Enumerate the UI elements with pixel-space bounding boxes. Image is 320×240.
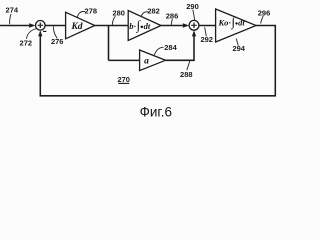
leader line label 288 [187, 61, 190, 70]
svg-text:274: 274 [6, 6, 19, 15]
svg-text:Фиг.6: Фиг.6 [140, 104, 172, 119]
svg-text:288: 288 [180, 70, 193, 79]
wire from Kd to integrator 282 with branch node 280 [95, 25, 128, 27]
arrowhead up into summing junction 290 bottom [192, 30, 196, 36]
svg-text:282: 282 [147, 7, 160, 16]
leader line label 276 [53, 27, 57, 39]
wire input line to summing junction 272 [0, 25, 29, 27]
arrowhead up into summing junction 272 bottom [38, 30, 42, 36]
svg-text:a: a [144, 56, 149, 66]
leader line label 286 [171, 19, 172, 25]
minus sign of feedback input at 272 [43, 30, 46, 32]
wire inner feedback horizontal into amplifier a [109, 59, 140, 61]
svg-text:294: 294 [232, 44, 245, 53]
op-amp Kd triangle 278 [66, 12, 95, 39]
svg-text:270: 270 [117, 75, 130, 84]
leader line label 272 [27, 29, 37, 39]
integrator amplifier Ko·∫·dt triangle 294 [216, 9, 256, 42]
leader line label 294 [236, 39, 238, 46]
arrowhead into summing junction 272 left [29, 23, 35, 27]
wire branch down from node 280 [108, 26, 110, 61]
wire 276 from 272 to amplifier Kd [45, 25, 66, 27]
leader line label 280 [112, 16, 115, 25]
svg-text:286: 286 [166, 11, 179, 20]
wire 286 from 282 to summing junction 290 [161, 25, 183, 27]
arrowhead into summing junction 290 left [183, 23, 189, 27]
svg-text:280: 280 [112, 8, 125, 17]
integrator amplifier b·∫·dt triangle 282 [128, 11, 161, 41]
summing junction 290 circle [189, 20, 199, 30]
underline of label 270 [118, 82, 129, 84]
leader line label 292 [205, 27, 207, 36]
leader line label 284 [154, 47, 163, 55]
wire 288 from amplifier a up to summing junction 290 [166, 36, 195, 60]
wire output 296 and outer feedback loop down right side, bottom and up into 272 [40, 26, 275, 96]
svg-text:272: 272 [20, 38, 33, 47]
summing junction 272 circle [36, 21, 46, 31]
svg-text:278: 278 [85, 7, 98, 16]
leader line label 278 [77, 11, 85, 17]
plus sign in 272 [38, 23, 43, 28]
svg-text:284: 284 [164, 43, 177, 52]
svg-text:290: 290 [186, 2, 199, 11]
leader line label 282 [141, 12, 148, 17]
leader line label 296 [261, 16, 264, 24]
svg-text:Kd: Kd [70, 22, 82, 32]
svg-text:296: 296 [258, 8, 271, 17]
leader line label 290 [193, 10, 195, 21]
amplifier a triangle 284 [140, 50, 166, 71]
svg-text:276: 276 [51, 37, 64, 46]
svg-text:292: 292 [200, 35, 213, 44]
plus sign in 290 [191, 23, 196, 28]
wire 292 from 290 to integrator 294 [199, 25, 216, 27]
leader line label 274 [10, 14, 11, 24]
